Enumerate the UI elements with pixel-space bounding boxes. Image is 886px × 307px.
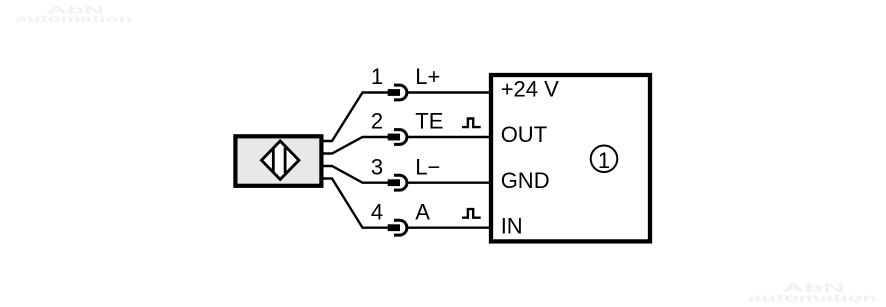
svg-text:3: 3 bbox=[371, 154, 383, 179]
svg-text:A: A bbox=[415, 199, 430, 224]
svg-text:1: 1 bbox=[598, 148, 610, 173]
svg-text:2: 2 bbox=[371, 109, 383, 134]
svg-text:automation: automation bbox=[748, 293, 878, 305]
svg-text:L−: L− bbox=[415, 154, 440, 179]
svg-text:1: 1 bbox=[371, 64, 383, 89]
svg-text:automation: automation bbox=[15, 13, 132, 25]
svg-text:4: 4 bbox=[371, 199, 383, 224]
svg-text:TE: TE bbox=[415, 109, 443, 134]
svg-text:OUT: OUT bbox=[501, 122, 547, 147]
svg-text:IN: IN bbox=[501, 214, 523, 239]
svg-text:GND: GND bbox=[501, 168, 550, 193]
svg-text:L+: L+ bbox=[415, 64, 440, 89]
svg-text:+24 V: +24 V bbox=[501, 77, 559, 102]
